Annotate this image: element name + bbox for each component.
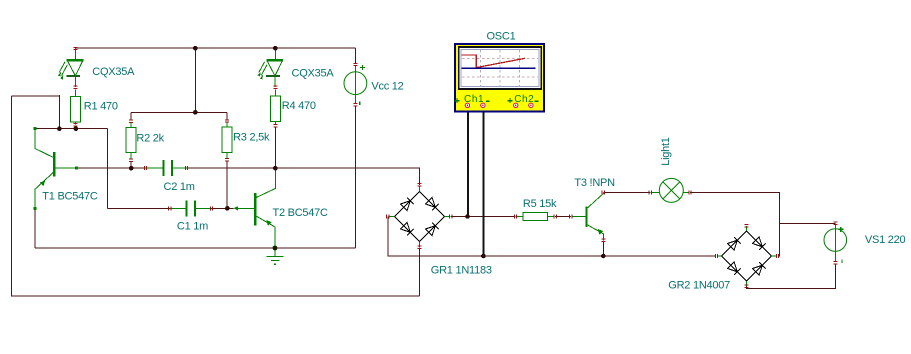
- svg-text:T1 BC547C: T1 BC547C: [42, 191, 98, 203]
- svg-text:CQX35A: CQX35A: [292, 67, 335, 79]
- svg-text:R3 2,5k: R3 2,5k: [233, 131, 270, 143]
- svg-text:CQX35A: CQX35A: [92, 66, 135, 78]
- svg-text:C1 1m: C1 1m: [177, 220, 208, 232]
- svg-text:R1 470: R1 470: [84, 100, 118, 112]
- svg-text:VS1 220: VS1 220: [865, 234, 906, 246]
- svg-text:R5 15k: R5 15k: [523, 198, 557, 210]
- svg-text:T2 BC547C: T2 BC547C: [273, 207, 329, 219]
- svg-text:T3 !NPN: T3 !NPN: [574, 177, 615, 189]
- svg-text:GR2 1N4007: GR2 1N4007: [668, 279, 730, 291]
- svg-text:Light1: Light1: [660, 137, 672, 166]
- svg-text:R4 470: R4 470: [282, 100, 316, 112]
- svg-text:Vcc 12: Vcc 12: [371, 81, 403, 93]
- svg-text:GR1 1N1183: GR1 1N1183: [431, 265, 492, 277]
- svg-text:OSC1: OSC1: [487, 30, 516, 42]
- svg-text:R2 2k: R2 2k: [136, 133, 164, 145]
- svg-text:C2 1m: C2 1m: [164, 181, 195, 193]
